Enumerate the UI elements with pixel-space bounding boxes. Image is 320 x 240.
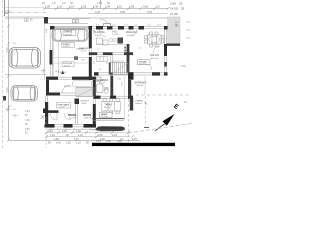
label mid <box>138 60 151 65</box>
line below parking <box>5 74 46 76</box>
wing east wall <box>93 80 96 96</box>
svg-text:17,00: 17,00 <box>170 12 178 16</box>
right margin ticks <box>186 22 191 38</box>
garage car label box <box>63 30 76 36</box>
bottom dim ticks <box>45 131 134 138</box>
hedge dark object <box>95 126 125 131</box>
corridor door arc <box>62 85 70 93</box>
svg-text:2,50: 2,50 <box>25 111 30 113</box>
entry arc top <box>100 20 108 24</box>
wall pier <box>129 26 134 30</box>
svg-text:14,50: 14,50 <box>170 7 178 11</box>
wardrobe row <box>97 57 108 62</box>
small black mark left edge <box>3 96 6 101</box>
fence line from driveway block <box>44 24 46 81</box>
dark pier below stairs <box>75 99 80 105</box>
svg-text:2,40: 2,40 <box>93 5 99 9</box>
svg-text:1,45: 1,45 <box>56 142 61 145</box>
corridor small crosses <box>41 68 46 73</box>
svg-text:5,00: 5,00 <box>7 87 9 92</box>
bathroom dividing wall x111 <box>110 76 113 96</box>
svg-text:1,35: 1,35 <box>96 140 101 143</box>
svg-text:2,50: 2,50 <box>170 2 176 6</box>
garage label below car <box>62 43 75 48</box>
wall x128-131 <box>128 80 131 96</box>
svg-text:1,50: 1,50 <box>81 5 87 9</box>
svg-text:2,90: 2,90 <box>48 130 53 133</box>
left wall upper thin <box>49 30 51 51</box>
wall pier <box>139 26 145 30</box>
svg-text:2,50: 2,50 <box>25 129 30 131</box>
boundary diagonal dashed <box>128 124 192 134</box>
section marker A <box>61 71 64 74</box>
right wall dark window frame <box>164 44 167 56</box>
window lines <box>124 26 129 28</box>
svg-text:25: 25 <box>179 2 183 6</box>
horizontal line y44 <box>96 44 126 46</box>
svg-text:5,20: 5,20 <box>147 10 153 14</box>
svg-text:6,1 m²: 6,1 m² <box>99 82 105 85</box>
dark fixture <box>118 38 124 44</box>
left margin vertical line top <box>4 0 6 16</box>
svg-text:GARAŻ: GARAŻ <box>64 31 73 34</box>
driveway double lines <box>48 18 90 20</box>
svg-text:1,20: 1,20 <box>57 5 63 9</box>
svg-text:2,60: 2,60 <box>106 140 111 143</box>
top small text row y3 <box>42 1 110 5</box>
long horizontal line y18 <box>5 17 168 19</box>
left wall lower thin <box>49 65 51 77</box>
corner block <box>128 72 134 80</box>
svg-text:5,6 m²: 5,6 m² <box>64 64 70 67</box>
corridor wall thin continuation <box>60 92 76 94</box>
svg-text:6,90: 6,90 <box>100 138 105 141</box>
vertical wall x111 thin <box>110 55 112 72</box>
svg-text:3,1 m²: 3,1 m² <box>140 63 146 66</box>
svg-text:12,2 m²: 12,2 m² <box>101 115 108 118</box>
window lines dining <box>144 26 164 28</box>
svg-text:3,60: 3,60 <box>143 5 149 9</box>
svg-text:3,60: 3,60 <box>98 134 103 137</box>
window lines <box>134 72 153 74</box>
window lines <box>134 26 139 28</box>
svg-text:HOL 4,2: HOL 4,2 <box>64 86 72 88</box>
svg-text:5,0x2,3: 5,0x2,3 <box>63 46 70 48</box>
svg-text:3,00: 3,00 <box>25 120 30 122</box>
svg-text:3,45: 3,45 <box>62 130 67 133</box>
terrace boundary dashed right <box>136 94 191 96</box>
svg-text:11,2 m²: 11,2 m² <box>69 116 76 119</box>
left dim ticks <box>7 11 10 142</box>
svg-text:ŁAZIENKA: ŁAZIENKA <box>97 79 109 82</box>
left small text cluster top <box>24 18 33 23</box>
svg-text:2,20: 2,20 <box>66 142 71 145</box>
svg-text:4,2 m²: 4,2 m² <box>81 49 87 52</box>
svg-text:zielony: zielony <box>136 103 142 105</box>
svg-text:2,0: 2,0 <box>62 1 66 5</box>
svg-text:HOL: HOL <box>113 31 119 34</box>
porch steps block <box>104 24 111 27</box>
property boundary dashed line left <box>2 0 4 150</box>
wing door arcs <box>50 113 57 120</box>
svg-text:1,5: 1,5 <box>52 1 56 5</box>
svg-text:4,30: 4,30 <box>95 10 101 14</box>
wall lower segment <box>89 57 92 80</box>
wing west wall lower <box>45 96 47 103</box>
gray strip bottom dark bar <box>166 44 180 46</box>
dining door arc <box>153 46 160 53</box>
svg-text:20,9 m²: 20,9 m² <box>65 33 73 36</box>
vertical wall x127 <box>127 44 130 73</box>
left small text cluster bottom <box>25 111 30 135</box>
vertical ref line x100 <box>100 0 102 9</box>
kitchen fixtures <box>97 38 103 44</box>
garage door top thin lines <box>55 25 89 27</box>
wall segment <box>152 72 160 75</box>
svg-text:5,10: 5,10 <box>74 138 79 141</box>
wall pier <box>118 26 124 30</box>
wing west block <box>43 109 48 114</box>
wing inner wall <box>48 110 59 113</box>
svg-text:1 2 3 4 5 6 7 8: 1 2 3 4 5 6 7 8 <box>112 61 124 63</box>
neighbour plot gray strip <box>168 17 180 45</box>
wall pier NE corner <box>164 26 168 30</box>
svg-text:5,00: 5,00 <box>7 47 9 52</box>
garage interior lines <box>54 57 89 59</box>
svg-text:7,4 m²: 7,4 m² <box>59 106 65 109</box>
svg-text:3,90: 3,90 <box>120 10 126 14</box>
window sill ticks <box>97 24 161 26</box>
sink circles <box>109 38 112 41</box>
wing bottom wall <box>45 124 55 128</box>
wall pier SE <box>164 72 168 75</box>
wall pier <box>89 26 93 30</box>
svg-text:1,80: 1,80 <box>129 5 135 9</box>
dashed vertical x46 lower <box>45 117 47 148</box>
doormat rect above stairs <box>73 81 92 87</box>
top dimension text row <box>45 5 160 9</box>
svg-text:1,10: 1,10 <box>76 142 81 145</box>
driveway edge dark block <box>44 17 48 24</box>
svg-text:SALON: SALON <box>150 53 159 57</box>
door arc right mid <box>146 64 152 70</box>
horizontal line y8 <box>5 7 45 9</box>
wall pier NW corner <box>50 26 55 30</box>
small marks top-left of wing <box>12 114 18 118</box>
terrace table <box>102 99 121 114</box>
wall pier <box>107 26 113 30</box>
labels small mid-left <box>62 62 74 67</box>
top dimension chain <box>44 8 168 10</box>
right totals text block <box>170 2 185 17</box>
svg-text:1,80: 1,80 <box>117 140 122 143</box>
left wall dark segment <box>50 50 53 65</box>
svg-text:9,8 m²: 9,8 m² <box>95 34 101 37</box>
svg-text:2,95: 2,95 <box>97 1 103 5</box>
stairs wing <box>78 88 92 97</box>
svg-text:17x18: 17x18 <box>81 103 86 105</box>
svg-text:2,10: 2,10 <box>117 5 123 9</box>
svg-text:2,5: 2,5 <box>156 5 160 9</box>
door gap thin lines <box>88 48 90 57</box>
thin vertical x124.5 <box>124 76 126 120</box>
svg-text:3,10: 3,10 <box>69 5 75 9</box>
svg-text:13,6 m²: 13,6 m² <box>137 84 144 87</box>
level dash-dot line <box>10 11 47 13</box>
svg-text:2,15: 2,15 <box>132 138 137 141</box>
window lines <box>103 26 107 28</box>
svg-text:10,8 m²: 10,8 m² <box>84 116 91 119</box>
svg-text:3,50: 3,50 <box>24 21 29 23</box>
window lines <box>113 26 119 28</box>
svg-text:7,2 m²: 7,2 m² <box>112 33 118 36</box>
svg-text:30,2 m²: 30,2 m² <box>151 57 159 60</box>
driveway posts <box>73 20 76 23</box>
svg-text:1,90: 1,90 <box>105 5 111 9</box>
wing room divider <box>75 104 77 124</box>
chimney dark bar <box>130 98 133 111</box>
svg-text:2,45: 2,45 <box>112 134 117 137</box>
terrace edge <box>92 118 124 120</box>
svg-text:1,20: 1,20 <box>50 134 55 137</box>
svg-text:TARAS: TARAS <box>105 104 113 107</box>
svg-text:25: 25 <box>181 7 185 11</box>
svg-text:1,50: 1,50 <box>181 65 186 68</box>
second dim chain partial <box>88 13 168 15</box>
svg-text:3,30: 3,30 <box>76 130 81 133</box>
X mark symbol <box>41 115 45 119</box>
svg-text:2,80: 2,80 <box>45 5 51 9</box>
svg-text:4,80: 4,80 <box>54 138 59 141</box>
terrace left edge line <box>144 76 146 95</box>
wall pier <box>96 26 103 30</box>
svg-text:2,10: 2,10 <box>78 134 83 137</box>
level marker symbol <box>5 11 9 14</box>
svg-text:24,5 m²: 24,5 m² <box>104 106 111 109</box>
dimension line left vertical <box>8 0 10 140</box>
window lines <box>92 26 96 28</box>
door arc hall <box>99 30 106 37</box>
dashed vertical x128.5 <box>128 99 130 144</box>
bottom dim text rows <box>48 130 137 141</box>
svg-text:2,50: 2,50 <box>175 22 179 28</box>
terrace label box <box>100 112 113 117</box>
